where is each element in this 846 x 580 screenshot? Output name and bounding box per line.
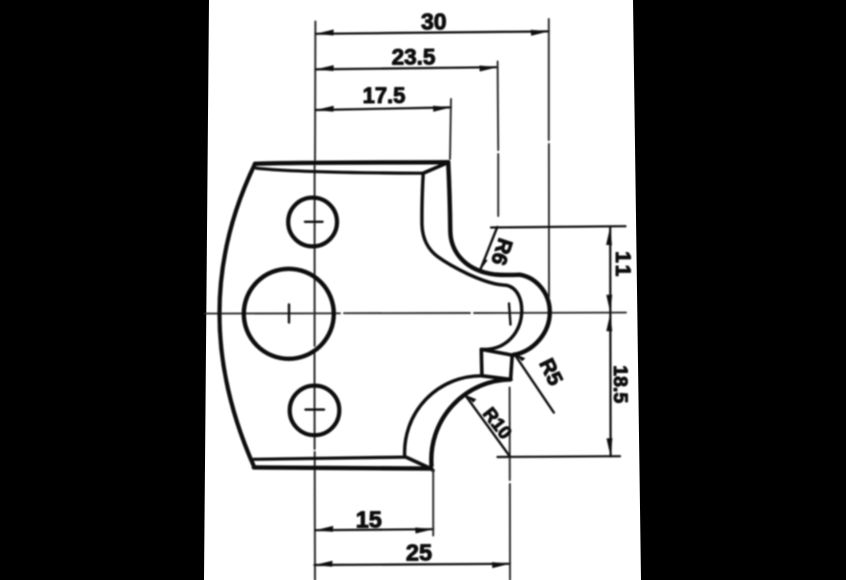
part outline: quirk notch parallelogram [481, 349, 512, 379]
dimension 25: line [315, 564, 511, 565]
dimension 30: right extension line [548, 19, 550, 297]
dimension 15: line [315, 529, 433, 530]
part outline: inner bevel line right side + R6 + R5 [422, 173, 522, 349]
left black sidebar [0, 0, 209, 580]
part outline: bottom-right bevel chamfer [407, 457, 434, 470]
part outline: left edge arc [219, 164, 255, 467]
svg-text:17.5: 17.5 [363, 83, 406, 108]
wire: vertical hole centerline (also extension line for 30/23.5/17.5/15/25) [314, 22, 317, 580]
dimension 18.5: arrows [606, 313, 612, 456]
dimension 30: arrows [316, 30, 549, 36]
dimension 17.5: right extension line [450, 99, 451, 159]
svg-text:18.5: 18.5 [609, 365, 631, 403]
right black sidebar [633, 0, 846, 580]
dimension 15: arrows [315, 526, 433, 534]
leader R10 [465, 395, 510, 456]
dimension 25: right extension line [509, 388, 511, 580]
dimension 30: line [316, 31, 549, 33]
leader R5 [514, 354, 554, 413]
hole: bottom small circle [290, 386, 340, 436]
dimension 11: top reference line [491, 226, 626, 227]
node: R5 profile center tick [509, 304, 511, 325]
svg-text:23.5: 23.5 [392, 45, 436, 70]
hole: top small circle [288, 198, 337, 247]
part outline: bottom edge inner bevel line [254, 457, 405, 459]
leader R6 [480, 227, 497, 271]
node: big hole center tick [288, 305, 290, 323]
node: bottom small hole center dash [306, 408, 325, 410]
wire: horizontal centerline [205, 313, 626, 314]
part outline: top edge outer [255, 162, 448, 164]
svg-text:15: 15 [356, 506, 382, 532]
dimension 25: arrows [315, 561, 511, 568]
dimension 23.5: arrows [316, 65, 498, 71]
dimension 15: right extension line [432, 471, 434, 536]
part outline: R10 cove outer arc [431, 379, 510, 465]
svg-text:25: 25 [406, 540, 432, 566]
node: top small hole center dash [305, 221, 323, 223]
part outline: right edge + R6 cove + R5 bead outer contour [448, 162, 550, 355]
dimension 17.5: line [316, 107, 451, 110]
part outline: R10 cove inner bevel arc [405, 376, 482, 457]
svg-text:30: 30 [421, 8, 447, 34]
dimension 23.5: right extension line [497, 62, 500, 217]
part outline: top edge inner bevel line [257, 168, 424, 173]
dimension 11/18.5: vertical dimension line [609, 227, 612, 457]
hole: big center circle [244, 269, 334, 359]
dimension 11: arrows [606, 227, 612, 313]
dimension 18.5: bottom reference line [498, 455, 621, 458]
part outline: top-right bevel chamfer [423, 162, 448, 173]
part outline: bottom edge outer [254, 467, 431, 468]
dimension 23.5: line [316, 67, 498, 69]
dimension 17.5: arrows [316, 106, 451, 112]
svg-text:11: 11 [611, 251, 634, 279]
